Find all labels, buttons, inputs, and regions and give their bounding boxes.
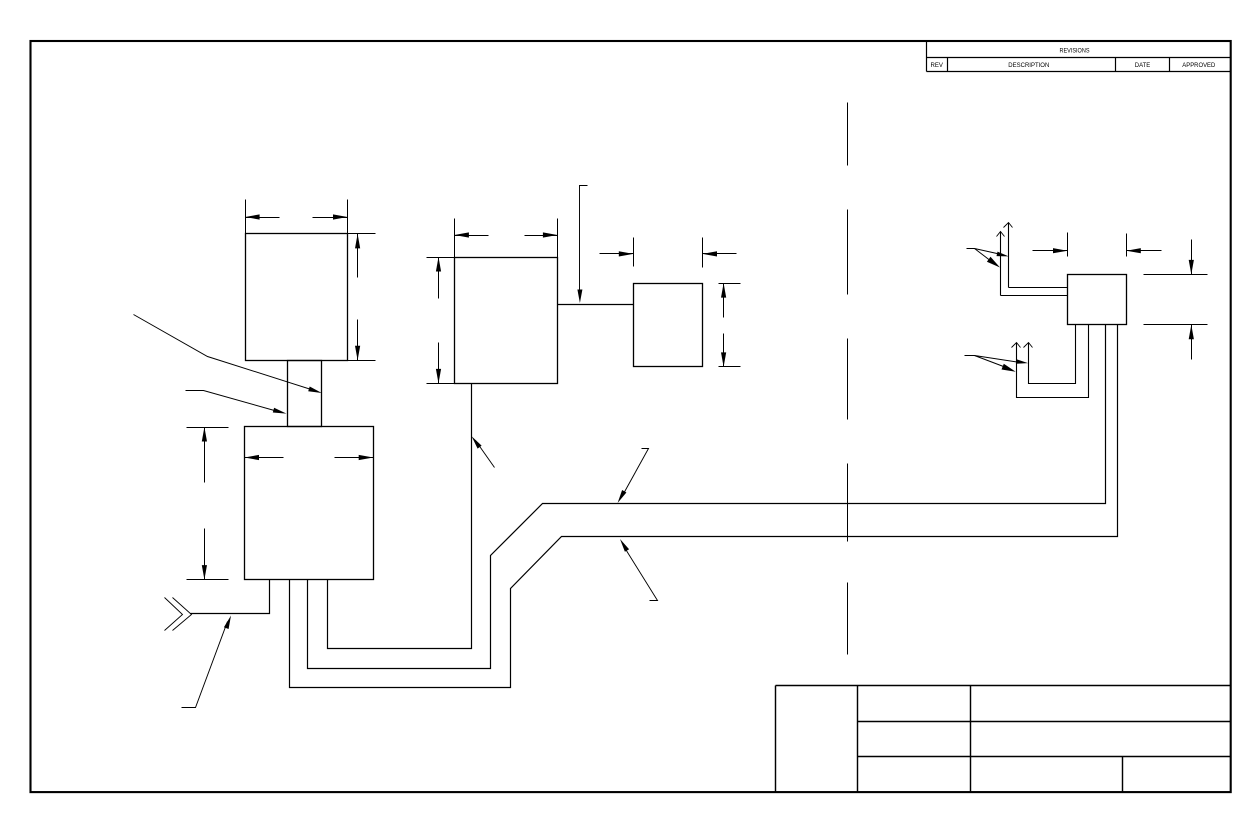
- dimension: P2 height extension lines: [187, 427, 229, 429]
- svg-text:DESCRIPTION: DESCRIPTION: [1008, 62, 1049, 69]
- revisions table: [926, 42, 928, 72]
- connector P3 (middle rectangle): [455, 258, 558, 384]
- dimension: P4 width dim lines and arrows (outside): [600, 253, 634, 255]
- wire P2 to P3 (inner loop): [328, 384, 472, 649]
- leader to boot right side: [134, 315, 318, 392]
- leader to upper long wire: [623, 449, 649, 496]
- cable break chevron outer: [165, 598, 183, 631]
- wire P2 to P5 (lower long run): [290, 325, 1118, 688]
- dimension: P3 height dim lines and arrows: [438, 258, 440, 299]
- wire P2 to cable break chevron: [191, 580, 270, 614]
- leader to P2-P3 wire: [476, 441, 495, 468]
- dimension: P1 height dim lines and arrows: [357, 234, 359, 278]
- dimension: P1 width extension lines: [245, 200, 247, 234]
- dimension: P3 height extension lines: [427, 257, 455, 259]
- leader to lower long wire: [625, 548, 658, 601]
- svg-text:REV: REV: [930, 62, 943, 69]
- P5 left lead wire outer: [1001, 232, 1068, 296]
- boot/transition piece between P1 and P2 (narrow rectangle): [288, 361, 322, 427]
- connector P5 (right rectangle): [1068, 275, 1127, 325]
- connector P1 (top-left rectangle): [246, 234, 348, 361]
- wire P2 to P5 (upper long run): [308, 325, 1106, 669]
- dimension: P1 height extension lines: [348, 233, 376, 235]
- dimension: P2 height dim lines and arrows: [204, 428, 206, 483]
- P5 bottom lead wire outer U: [1017, 325, 1089, 398]
- open arrowhead on inner U lead: [1024, 343, 1033, 348]
- dimension: P4 height extension lines: [719, 283, 741, 285]
- dimension: P3 width extension lines: [454, 219, 456, 258]
- dimension: P5 height dim lines and arrows (outside): [1191, 240, 1193, 275]
- open arrowhead on inner left lead: [1004, 223, 1013, 228]
- connector P4 (small middle-right rectangle): [634, 284, 703, 367]
- centerline (dashed): [847, 103, 849, 655]
- dimension: P5 width dim lines and arrows (outside): [1033, 250, 1068, 252]
- open arrowhead on outer U lead: [1012, 343, 1021, 348]
- dimension: P3 width dim lines and arrows: [455, 235, 489, 237]
- leader to P5 bottom U leads (double arrow): [965, 356, 1021, 363]
- cable break chevron inner: [173, 598, 192, 631]
- dimension: P5 width extension lines: [1067, 233, 1069, 257]
- leader to chevron-end wire: [182, 622, 228, 708]
- P5 bottom lead wire inner U: [1029, 325, 1076, 384]
- dimension: P5 height extension lines: [1144, 274, 1208, 276]
- dimension: P1 width dim lines and arrows: [246, 217, 280, 219]
- svg-text:DATE: DATE: [1135, 62, 1151, 69]
- leader to boot left side: [186, 391, 282, 413]
- dimension: P2 width dim lines and arrows (inside): [245, 457, 284, 459]
- connector P2 (lower-left rectangle): [245, 427, 374, 580]
- leader to P3-P4 wire (vertical): [580, 186, 588, 290]
- open arrowhead on outer left lead: [997, 232, 1005, 237]
- svg-text:APPROVED: APPROVED: [1182, 62, 1215, 69]
- svg-text:REVISIONS: REVISIONS: [1060, 47, 1091, 54]
- P5 left lead wire inner: [1009, 223, 1068, 288]
- dimension: P4 height dim lines and arrows (inside): [723, 284, 725, 318]
- leader to P5 left leads (double arrow): [967, 249, 1002, 255]
- wire P3 to P4: [558, 304, 634, 306]
- title block: [776, 685, 1231, 687]
- dimension: P4 width extension lines: [633, 238, 635, 267]
